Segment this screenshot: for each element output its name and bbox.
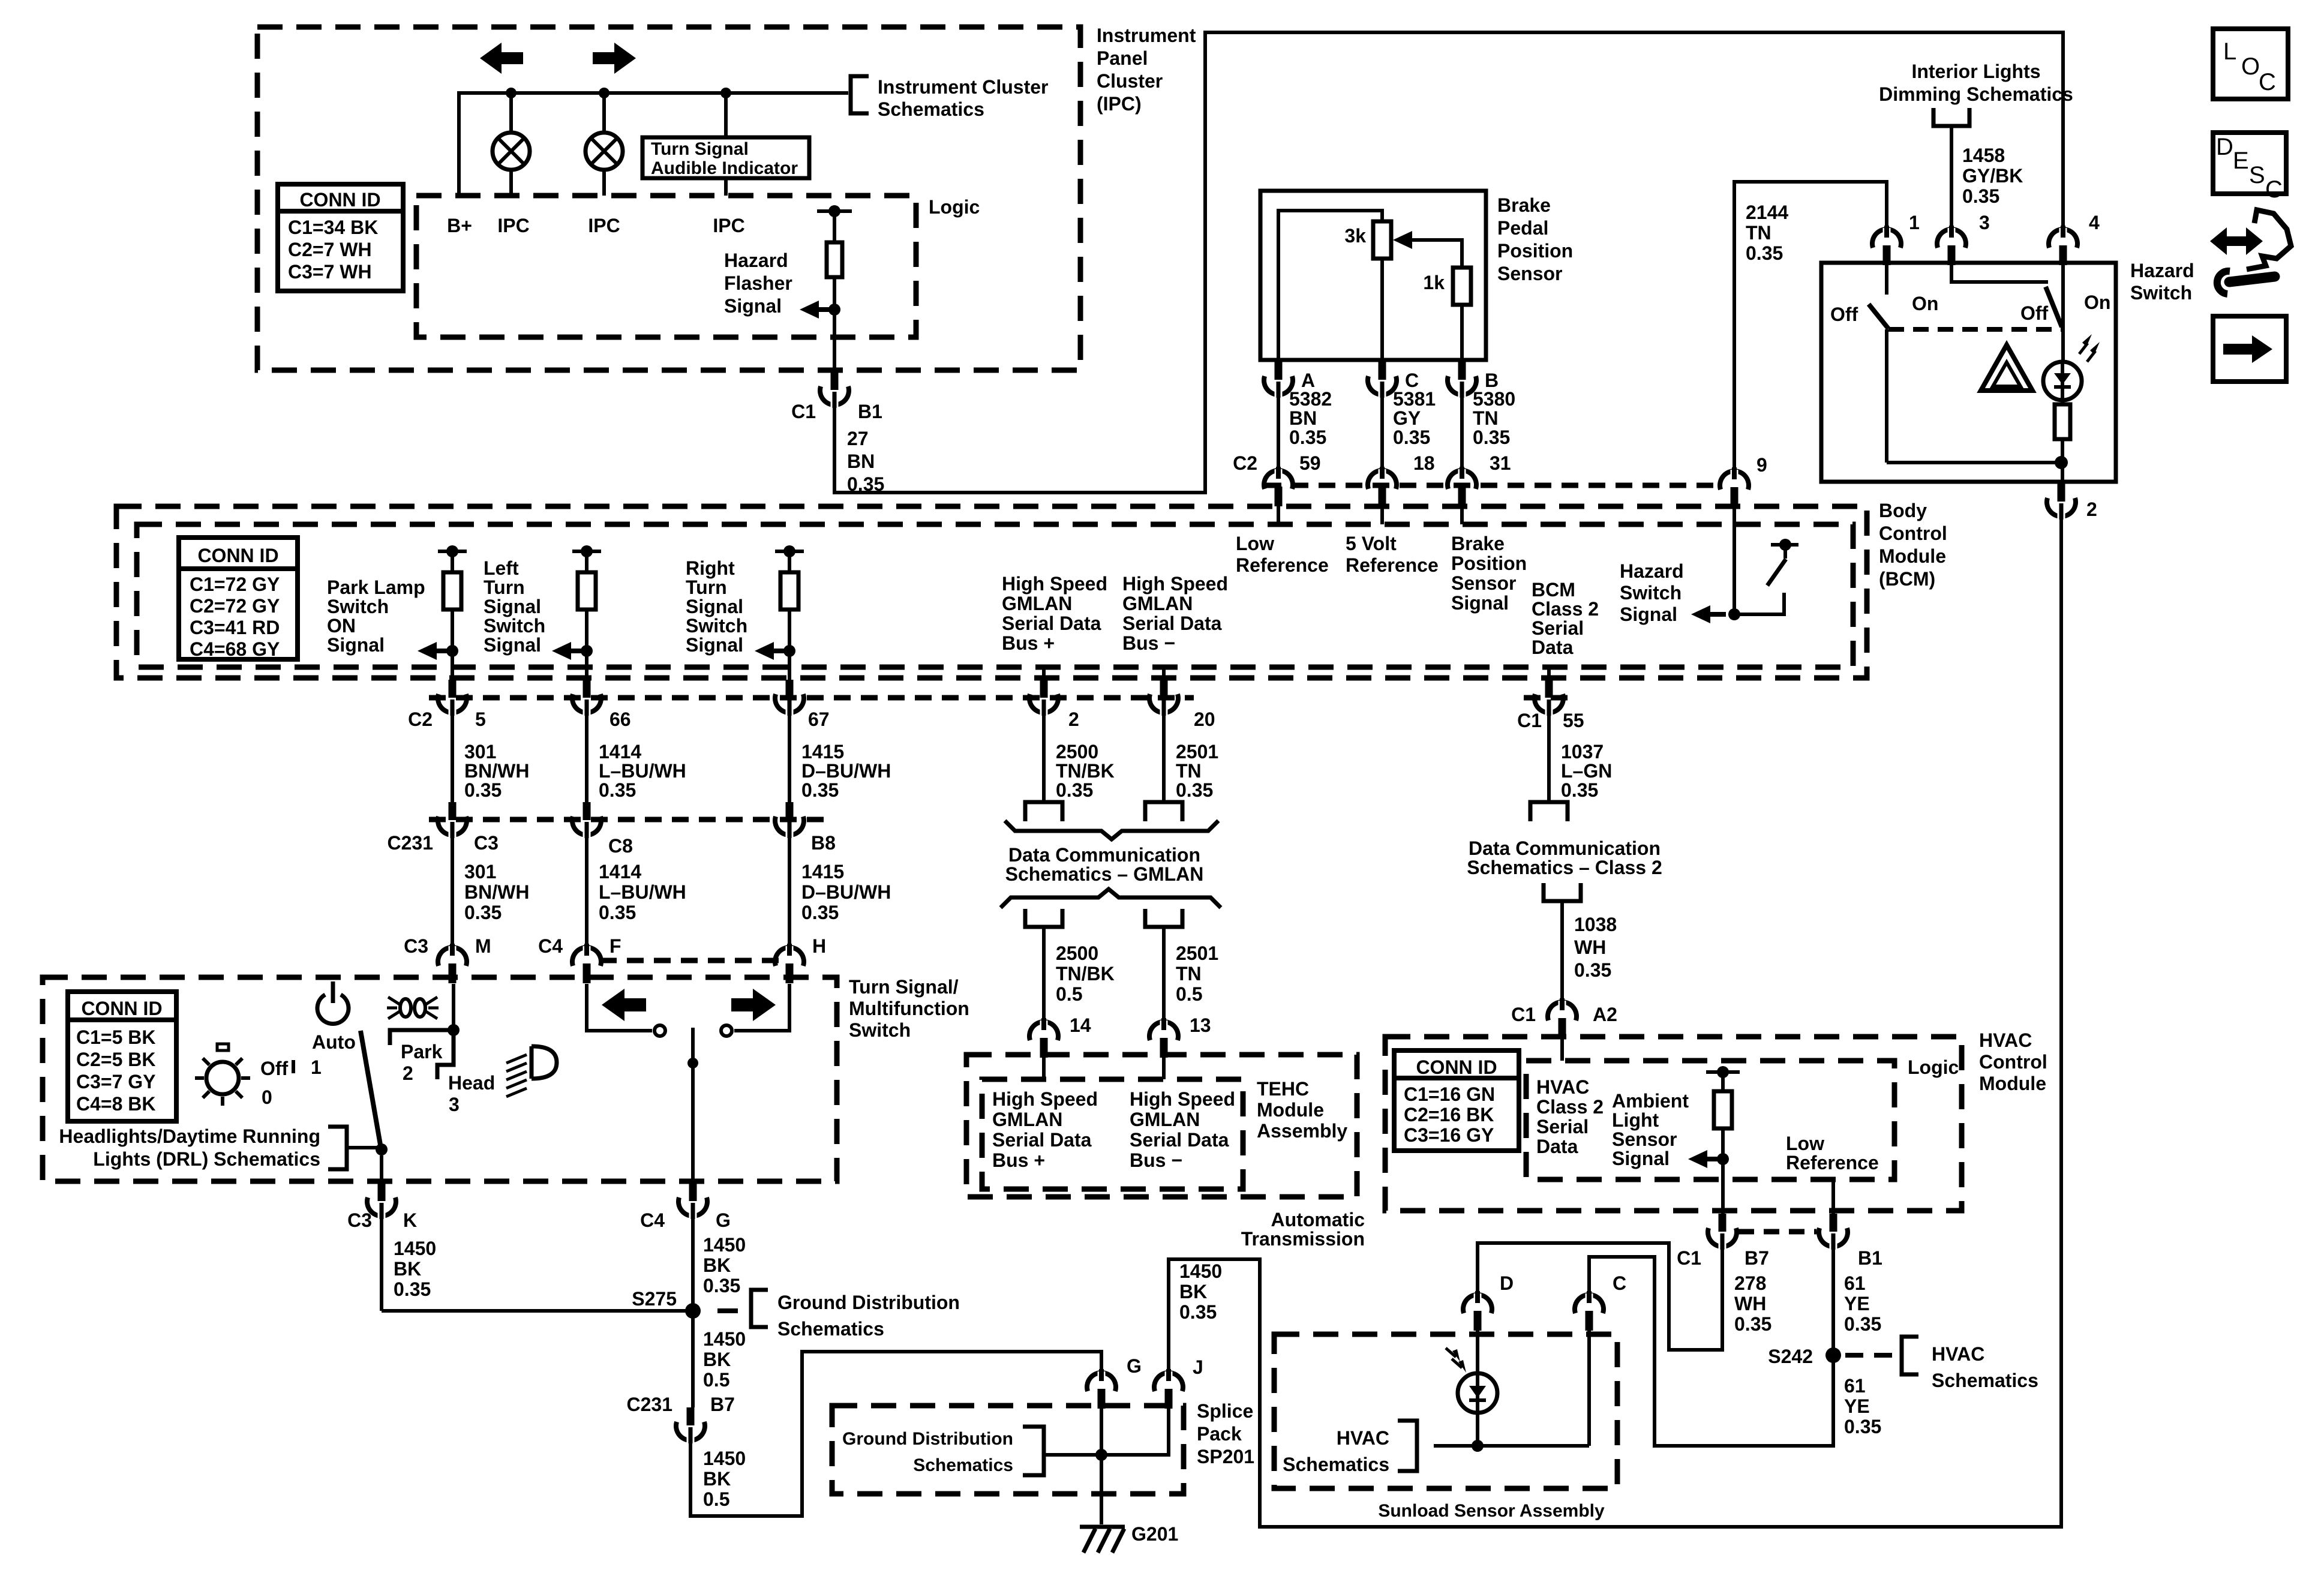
svg-text:C: C — [2265, 176, 2283, 203]
svg-text:C3=16 GY: C3=16 GY — [1404, 1124, 1494, 1146]
svg-text:Turn Signal: Turn Signal — [651, 139, 749, 159]
svg-text:B+: B+ — [447, 215, 472, 236]
hazard switch pole 2 (on) — [1951, 265, 2048, 282]
svg-text:Brake: Brake — [1451, 533, 1505, 554]
svg-text:Signal: Signal — [484, 596, 541, 617]
svg-text:0.35: 0.35 — [1844, 1313, 1881, 1335]
LED indicator — [2061, 265, 2065, 362]
svg-text:278: 278 — [1734, 1272, 1766, 1294]
svg-text:O: O — [2241, 53, 2260, 80]
svg-text:(IPC): (IPC) — [1097, 93, 1142, 115]
svg-text:0.35: 0.35 — [1574, 959, 1611, 981]
svg-text:2500: 2500 — [1056, 942, 1098, 964]
svg-text:Module: Module — [1979, 1073, 2046, 1094]
svg-text:61: 61 — [1844, 1375, 1866, 1397]
svg-text:Signal: Signal — [1620, 604, 1677, 625]
svg-text:B7: B7 — [710, 1394, 735, 1415]
svg-text:0.35: 0.35 — [464, 902, 502, 923]
svg-text:Automatic: Automatic — [1271, 1209, 1365, 1230]
svg-text:5 Volt: 5 Volt — [1346, 533, 1397, 554]
off-page brackets GMLAN top — [1025, 802, 1062, 821]
svg-text:0.35: 0.35 — [599, 902, 636, 923]
power (auto) icon — [317, 995, 349, 1024]
svg-text:Transmission: Transmission — [1241, 1228, 1365, 1250]
svg-text:5: 5 — [475, 709, 486, 730]
svg-text:High Speed: High Speed — [992, 1088, 1098, 1110]
svg-text:0.5: 0.5 — [1176, 983, 1202, 1005]
svg-text:1450: 1450 — [1179, 1260, 1222, 1282]
svg-text:Panel: Panel — [1097, 47, 1148, 69]
svg-text:E: E — [2233, 148, 2249, 174]
svg-text:C1=72 GY: C1=72 GY — [190, 574, 280, 595]
brace up — [1001, 889, 1221, 908]
svg-text:TN/BK: TN/BK — [1056, 760, 1115, 782]
svg-text:5380: 5380 — [1473, 388, 1515, 410]
resistor (hazard flasher) — [827, 242, 842, 277]
svg-text:L: L — [2223, 38, 2236, 65]
node: bus junction 3 — [720, 88, 731, 98]
svg-text:Left: Left — [484, 557, 519, 579]
svg-text:Low: Low — [1236, 533, 1274, 554]
svg-text:Park: Park — [401, 1041, 443, 1062]
svg-text:S242: S242 — [1768, 1346, 1813, 1367]
svg-text:GMLAN: GMLAN — [992, 1109, 1062, 1130]
svg-text:Turn: Turn — [484, 577, 525, 598]
svg-text:Schematics: Schematics — [1932, 1370, 2038, 1391]
svg-text:1450: 1450 — [394, 1238, 436, 1259]
node: bus junction 2 — [599, 88, 609, 98]
CONN ID table (IPC) — [278, 184, 403, 291]
svg-text:C231: C231 — [627, 1394, 673, 1415]
connector BCM bottom pin x=1316 — [788, 667, 791, 680]
CONN ID table (HVAC) — [1394, 1050, 1519, 1151]
svg-text:SP201: SP201 — [1197, 1446, 1254, 1467]
wire from connector M — [452, 984, 455, 1030]
connector BCM bottom pin x=978 — [585, 667, 588, 680]
svg-text:Position: Position — [1497, 240, 1573, 262]
svg-text:G: G — [716, 1209, 731, 1231]
wire 61 YE to S242 and sunload C — [1589, 1248, 1833, 1446]
svg-text:3: 3 — [449, 1094, 460, 1115]
connector BCM pin 9 — [1720, 471, 1749, 490]
svg-text:Class 2: Class 2 — [1532, 598, 1599, 620]
svg-text:L–BU/WH: L–BU/WH — [599, 760, 686, 782]
svg-text:0.5: 0.5 — [1056, 983, 1082, 1005]
svg-text:Low: Low — [1786, 1133, 1824, 1154]
svg-text:Signal: Signal — [686, 634, 743, 656]
icon: arrow box — [2213, 316, 2286, 382]
svg-text:Off: Off — [1830, 304, 1858, 325]
connector BCM bottom pin x=1740 — [1042, 667, 1046, 680]
svg-text:Logic: Logic — [1908, 1056, 1959, 1078]
connector BCM pin 31 — [1448, 470, 1476, 489]
svg-text:C2=72 GY: C2=72 GY — [190, 595, 280, 617]
svg-text:Control: Control — [1879, 523, 1947, 544]
svg-text:Switch: Switch — [2130, 282, 2192, 304]
BCM output driver branch x=978 — [572, 550, 601, 553]
svg-text:Schematics: Schematics — [913, 1455, 1013, 1475]
connector A (BPP sensor) — [1275, 362, 1283, 380]
svg-text:20: 20 — [1194, 709, 1215, 730]
svg-text:C4=8 BK: C4=8 BK — [76, 1093, 156, 1115]
park position contact — [390, 1030, 454, 1045]
svg-text:1458: 1458 — [1962, 145, 2005, 166]
svg-text:Schematics: Schematics — [777, 1318, 884, 1340]
module box: Sunload Sensor Assembly — [1274, 1334, 1617, 1488]
svg-text:Body: Body — [1879, 500, 1927, 521]
svg-text:C3: C3 — [404, 935, 428, 957]
svg-text:C2=7 WH: C2=7 WH — [288, 239, 372, 260]
svg-text:Reference: Reference — [1236, 554, 1329, 576]
svg-text:Data: Data — [1532, 637, 1574, 658]
wire 278 WH to sunload D — [1478, 1243, 1722, 1350]
wiper arrow — [1393, 231, 1412, 249]
svg-text:61: 61 — [1844, 1272, 1866, 1294]
module box: Hazard Switch — [1821, 263, 2116, 482]
svg-text:31: 31 — [1490, 452, 1511, 474]
svg-text:A2: A2 — [1593, 1004, 1617, 1025]
park lamps icon — [400, 999, 411, 1017]
wire: pole1 to common junction — [1885, 329, 1888, 463]
svg-text:Head: Head — [448, 1072, 495, 1094]
svg-text:1415: 1415 — [801, 861, 844, 882]
BCM output driver branch x=1316 — [775, 550, 804, 553]
svg-text:Switch: Switch — [686, 615, 747, 637]
turn signal pole — [691, 1028, 695, 1183]
svg-text:C4: C4 — [538, 935, 563, 957]
CONN ID table (multifunction) — [68, 992, 176, 1121]
svg-text:27: 27 — [847, 428, 869, 449]
svg-text:Serial Data: Serial Data — [1122, 613, 1222, 634]
svg-text:B1: B1 — [858, 401, 882, 422]
svg-text:Sunload Sensor Assembly: Sunload Sensor Assembly — [1378, 1501, 1605, 1521]
svg-text:C2=16 BK: C2=16 BK — [1404, 1104, 1494, 1125]
wire 2144 TN 0.35 (BCM 9 to hazard switch 1) — [1734, 182, 1887, 472]
svg-text:9: 9 — [1756, 454, 1767, 476]
headlamp switch knob icon — [206, 1062, 239, 1094]
connector C3 K — [380, 1155, 383, 1183]
svg-text:Off: Off — [2020, 302, 2049, 324]
svg-text:1038: 1038 — [1574, 914, 1617, 935]
svg-text:1: 1 — [311, 1056, 322, 1078]
svg-text:Hazard: Hazard — [1620, 560, 1684, 582]
svg-text:Ground Distribution: Ground Distribution — [842, 1429, 1013, 1449]
svg-text:2144: 2144 — [1746, 202, 1788, 223]
svg-text:BN/WH: BN/WH — [464, 881, 529, 903]
svg-text:Reference: Reference — [1786, 1152, 1879, 1173]
connector C231 pin x=754 — [449, 802, 457, 820]
svg-text:S: S — [2249, 162, 2265, 188]
connector multifunction pin M — [438, 947, 467, 966]
svg-text:GY/BK: GY/BK — [1962, 165, 2023, 187]
headlight icon — [532, 1046, 557, 1079]
svg-text:C3=41 RD: C3=41 RD — [190, 617, 280, 638]
internal splice wiring — [1100, 1407, 1103, 1524]
svg-text:BK: BK — [703, 1254, 731, 1276]
svg-text:C1=34 BK: C1=34 BK — [288, 217, 378, 238]
right turn contact — [734, 984, 789, 1031]
splice S275 — [382, 1309, 693, 1313]
svg-text:1450: 1450 — [703, 1328, 746, 1350]
svg-text:TN: TN — [1746, 222, 1771, 244]
svg-text:BK: BK — [1179, 1281, 1207, 1302]
svg-text:Assembly: Assembly — [1257, 1120, 1347, 1142]
brace down — [1005, 821, 1218, 839]
svg-text:Serial: Serial — [1536, 1116, 1589, 1137]
resistor (LED) — [2055, 404, 2070, 439]
svg-text:1414: 1414 — [599, 741, 641, 763]
node: bus junction 1 — [506, 88, 517, 98]
svg-text:Multifunction: Multifunction — [849, 998, 969, 1019]
wires 2500/2501 0.5 to TEHC — [1042, 927, 1046, 1023]
svg-text:0.35: 0.35 — [703, 1275, 740, 1296]
connector pin 2 — [2058, 484, 2065, 502]
svg-text:GMLAN: GMLAN — [1130, 1109, 1200, 1130]
svg-text:3: 3 — [1979, 212, 1990, 233]
svg-text:C3: C3 — [474, 832, 499, 854]
svg-text:2: 2 — [2086, 499, 2097, 520]
connector pin 1 — [1872, 229, 1901, 248]
connector pin 4 — [2049, 229, 2077, 248]
svg-text:Switch: Switch — [849, 1019, 911, 1041]
svg-text:1450: 1450 — [703, 1234, 746, 1256]
svg-text:C3=7 WH: C3=7 WH — [288, 261, 372, 283]
svg-text:C1=16 GN: C1=16 GN — [1404, 1083, 1495, 1105]
connector row C3/C4 (multifunction switch) — [600, 958, 780, 963]
light arrows into photodiode — [1452, 1349, 1460, 1362]
svg-text:C8: C8 — [608, 835, 633, 857]
module box: Splice Pack SP201 — [832, 1406, 1184, 1494]
connector C — [1575, 1295, 1604, 1313]
svg-text:Serial Data: Serial Data — [1002, 613, 1101, 634]
svg-text:Brake: Brake — [1497, 194, 1551, 216]
svg-text:Serial: Serial — [1532, 617, 1584, 639]
wire 1450 BK (hazard ground) down right side and along bottom to SP201 J — [1169, 518, 2061, 1527]
svg-text:D: D — [1500, 1272, 1514, 1294]
svg-text:0.35: 0.35 — [1056, 779, 1093, 801]
module box: HVAC Control Module (outer) — [1385, 1037, 1962, 1211]
module box: Body Control Module (outer) — [116, 506, 1867, 678]
svg-text:2: 2 — [1068, 709, 1079, 730]
connector C231 pin x=1316 — [786, 802, 794, 820]
svg-text:Off: Off — [260, 1058, 289, 1079]
svg-text:IPC: IPC — [588, 215, 620, 236]
svg-text:Data: Data — [1536, 1136, 1578, 1157]
connector BCM pin 59 — [1264, 470, 1293, 489]
svg-text:Module: Module — [1879, 545, 1946, 567]
svg-text:GY: GY — [1393, 407, 1421, 429]
svg-text:B1: B1 — [1858, 1247, 1882, 1269]
svg-text:Signal: Signal — [724, 295, 782, 317]
svg-text:1k: 1k — [1423, 272, 1445, 293]
svg-text:1414: 1414 — [599, 861, 641, 882]
svg-text:2500: 2500 — [1056, 741, 1098, 763]
svg-text:On: On — [2084, 292, 2110, 313]
svg-text:BK: BK — [703, 1349, 731, 1370]
svg-text:Module: Module — [1257, 1099, 1324, 1121]
svg-text:Switch: Switch — [484, 615, 545, 637]
svg-text:0.35: 0.35 — [1393, 427, 1430, 448]
wire 1458 GY/BK to hazard switch pin 3 — [1950, 126, 1953, 230]
svg-text:66: 66 — [609, 709, 631, 730]
svg-text:J: J — [1193, 1356, 1203, 1378]
svg-text:2501: 2501 — [1176, 942, 1218, 964]
svg-text:BN: BN — [847, 451, 875, 472]
connector B (BPP sensor) — [1458, 362, 1466, 380]
svg-text:0.5: 0.5 — [703, 1488, 729, 1510]
svg-text:B8: B8 — [811, 832, 836, 854]
BCM hazard switch signal input — [1733, 506, 1736, 614]
svg-text:0.35: 0.35 — [1844, 1416, 1881, 1437]
svg-text:Ground Distribution: Ground Distribution — [777, 1292, 960, 1313]
head position contact — [437, 1030, 454, 1079]
svg-text:M: M — [475, 935, 491, 957]
svg-text:Hazard: Hazard — [2130, 260, 2194, 281]
connector BCM bottom pin x=2582 — [1547, 667, 1551, 680]
svg-text:BN/WH: BN/WH — [464, 760, 529, 782]
turn signal switch arrows — [602, 989, 646, 1021]
svg-text:2: 2 — [403, 1062, 413, 1084]
svg-text:Signal: Signal — [484, 634, 541, 656]
svg-text:Logic: Logic — [929, 196, 980, 218]
svg-text:Signal: Signal — [686, 596, 743, 617]
svg-text:B7: B7 — [1744, 1247, 1769, 1269]
svg-text:HVAC: HVAC — [1337, 1427, 1389, 1449]
svg-text:Control: Control — [1979, 1051, 2047, 1073]
svg-text:L–GN: L–GN — [1561, 760, 1612, 782]
svg-text:Hazard: Hazard — [724, 250, 788, 271]
mechanical link (dashed) — [1888, 327, 2062, 332]
svg-text:55: 55 — [1563, 710, 1584, 731]
svg-text:C2: C2 — [1233, 452, 1257, 474]
svg-text:On: On — [1912, 293, 1938, 314]
left turn contact — [587, 984, 652, 1031]
svg-text:Signal: Signal — [1451, 592, 1509, 614]
svg-text:Reference: Reference — [1346, 554, 1439, 576]
connector G (SP201) — [1087, 1373, 1116, 1391]
svg-text:Light: Light — [1612, 1109, 1659, 1131]
connector multifunction pin F — [572, 947, 601, 966]
svg-text:Splice: Splice — [1197, 1400, 1253, 1422]
svg-text:13: 13 — [1190, 1014, 1211, 1036]
svg-text:C4: C4 — [640, 1209, 665, 1231]
svg-text:Pedal: Pedal — [1497, 217, 1548, 239]
connector BCM pin 18 — [1368, 470, 1397, 489]
connector HVAC C1 B7 — [1719, 1214, 1727, 1232]
svg-text:TEHC: TEHC — [1257, 1078, 1309, 1100]
connector C231 pin x=978 — [583, 802, 591, 820]
class 2 reference chain — [1530, 802, 1568, 821]
svg-text:Turn: Turn — [686, 577, 727, 598]
svg-text:0.35: 0.35 — [1473, 427, 1510, 448]
connector row C231 — [429, 817, 828, 822]
svg-text:0.35: 0.35 — [599, 779, 636, 801]
svg-text:Auto: Auto — [312, 1031, 356, 1053]
svg-text:67: 67 — [808, 709, 830, 730]
svg-text:5381: 5381 — [1393, 388, 1436, 410]
svg-text:Schematics – GMLAN: Schematics – GMLAN — [1005, 863, 1204, 885]
svg-text:D–BU/WH: D–BU/WH — [801, 760, 891, 782]
svg-text:YE: YE — [1844, 1293, 1870, 1314]
LED light arrows — [2082, 334, 2092, 347]
connector row (BCM C2 top) — [1265, 483, 1720, 488]
svg-text:1: 1 — [1909, 212, 1920, 233]
svg-text:C1: C1 — [1511, 1004, 1536, 1025]
svg-text:0.35: 0.35 — [464, 779, 502, 801]
svg-text:Sensor: Sensor — [1451, 572, 1516, 594]
module box: IPC Logic — [416, 196, 916, 337]
svg-text:S275: S275 — [632, 1288, 677, 1310]
svg-text:Schematics: Schematics — [878, 98, 984, 120]
svg-text:C3=7 GY: C3=7 GY — [76, 1071, 156, 1092]
svg-text:0.35: 0.35 — [1289, 427, 1326, 448]
svg-text:ON: ON — [327, 615, 356, 637]
svg-text:WH: WH — [1574, 936, 1606, 958]
svg-text:C2=5 BK: C2=5 BK — [76, 1049, 156, 1070]
ground G201 — [1080, 1525, 1125, 1529]
svg-text:High Speed: High Speed — [1122, 573, 1228, 595]
svg-text:GMLAN: GMLAN — [1002, 593, 1072, 614]
svg-text:C3: C3 — [347, 1209, 372, 1231]
svg-text:4: 4 — [2089, 212, 2100, 233]
module box: Turn Signal / Multifunction Switch — [43, 977, 837, 1181]
svg-text:BK: BK — [703, 1468, 731, 1490]
svg-text:0.35: 0.35 — [1176, 779, 1213, 801]
svg-text:GMLAN: GMLAN — [1122, 593, 1193, 614]
photodiode — [1458, 1373, 1497, 1413]
module box: Instrument Panel Cluster (IPC) — [257, 27, 1080, 370]
svg-text:C231: C231 — [388, 832, 434, 854]
connector C231 B7 — [687, 1407, 695, 1425]
svg-text:D: D — [2216, 134, 2233, 160]
wire to splice pack — [690, 1352, 1101, 1516]
svg-text:TN: TN — [1176, 760, 1202, 782]
connector D — [1463, 1295, 1492, 1313]
bracket HVAC Schematics (internal) — [1398, 1421, 1417, 1471]
CONN ID table (BCM) — [179, 538, 298, 659]
connector row (BCM bottom) — [429, 695, 1194, 701]
svg-text:Signal: Signal — [327, 634, 385, 656]
svg-text:TN/BK: TN/BK — [1056, 963, 1115, 984]
svg-text:BCM: BCM — [1532, 579, 1575, 601]
left turn indicator arrow — [480, 43, 523, 74]
module box: Body Control Module (inner) — [137, 524, 1853, 667]
resistor 1k — [1453, 268, 1471, 305]
wire 27 BN 0.35 routing to hazard switch pin 4 — [834, 32, 2063, 493]
svg-text:(BCM): (BCM) — [1879, 568, 1935, 590]
svg-text:301: 301 — [464, 741, 496, 763]
svg-text:Flasher: Flasher — [724, 272, 792, 294]
svg-text:Bus −: Bus − — [1122, 632, 1175, 654]
svg-text:L–BU/WH: L–BU/WH — [599, 881, 686, 903]
svg-text:Data Communication: Data Communication — [1469, 837, 1661, 859]
svg-text:5382: 5382 — [1289, 388, 1332, 410]
svg-text:G: G — [1127, 1355, 1142, 1377]
headlamp switch blade — [361, 1031, 382, 1149]
connector multifunction pin H — [775, 947, 804, 966]
svg-text:Ambient: Ambient — [1612, 1090, 1689, 1112]
svg-text:C1: C1 — [1517, 710, 1542, 731]
svg-text:High Speed: High Speed — [1130, 1088, 1235, 1110]
ambient light sensor branch — [1706, 1070, 1740, 1074]
lamp: left turn indicator — [509, 93, 513, 196]
svg-text:F: F — [609, 935, 621, 957]
connector BCM bottom pin x=754 — [451, 667, 454, 680]
BCM output driver branch x=754 — [438, 550, 467, 553]
svg-text:Class 2: Class 2 — [1536, 1096, 1604, 1118]
connector TEHC pin x=1940 — [1149, 1022, 1178, 1040]
svg-text:IPC: IPC — [497, 215, 529, 236]
